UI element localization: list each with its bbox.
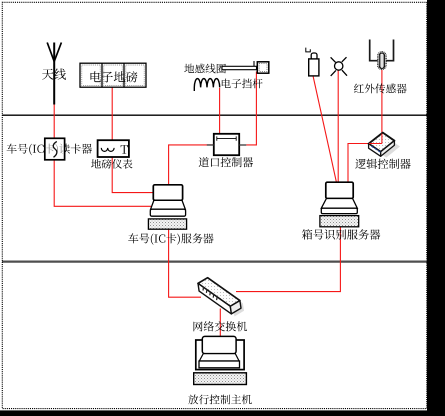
- logic controller top face: [369, 133, 395, 152]
- ground induction coil: [194, 79, 219, 91]
- card reader box: [45, 138, 65, 160]
- vehicle-ID server monitor: [153, 185, 182, 201]
- camera body: [309, 59, 319, 76]
- lamp circle: [335, 62, 343, 70]
- release host screen: [202, 336, 236, 353]
- vehicle-ID server keyboard: [148, 219, 186, 229]
- wire gate controller to vehicle-ID server top: [169, 145, 214, 186]
- container-ID server monitor: [326, 182, 353, 198]
- vehicle-ID server base bar: [150, 209, 185, 216]
- barrier drive box: [257, 62, 269, 73]
- weighbridge cell inner dotted borders: [82, 65, 144, 85]
- wire vehicle-ID server to network switch: [169, 229, 201, 297]
- label 逻辑控制器: [355, 159, 410, 169]
- wire network switch to release control host: [219, 309, 221, 339]
- network switch shadow: [201, 280, 244, 316]
- meter T symbol: [121, 145, 128, 154]
- label 网络交换机: [194, 321, 248, 331]
- electronic barrier rod: [222, 66, 257, 69]
- network switch front face: [198, 283, 231, 314]
- label 地感线圈: [184, 64, 226, 74]
- frame: bottom black band: [0, 410, 445, 416]
- infrared sensor capsule hatch: [381, 54, 383, 68]
- wire lamp to container-ID server: [337, 71, 339, 183]
- wire overlay on logic controller: [369, 134, 382, 144]
- wire antenna - card reader - vehicle-ID server: [54, 104, 151, 206]
- wire logic controller to container-ID server: [348, 144, 382, 184]
- wire camera to container-ID server: [313, 76, 337, 183]
- wire container-ID server to network switch: [236, 227, 340, 292]
- wire barrier to gate controller right stub: [246, 72, 256, 145]
- faint glyphs inside reader box: [44, 144, 69, 156]
- label 电子挡杆: [222, 79, 263, 89]
- label 红外传感器: [354, 84, 407, 94]
- label 天线: [42, 68, 66, 79]
- label 箱号识别服务器: [302, 229, 380, 240]
- label 道口控制器: [199, 157, 253, 167]
- network switch end face: [230, 301, 241, 314]
- wire induction coil to gate controller: [219, 88, 221, 134]
- lamp rays: [331, 57, 347, 76]
- release host keyboard: [194, 373, 247, 385]
- antenna fork: [47, 43, 61, 62]
- vehicle-ID server flare: [151, 200, 186, 209]
- label 放行控制主机: [188, 395, 252, 405]
- gate controller side stubs: [207, 144, 247, 146]
- wire meter to vehicle-ID server monitor: [112, 157, 154, 193]
- release host base: [199, 361, 240, 368]
- label 车号(IC卡)读卡器: [7, 144, 92, 156]
- antenna mast: [53, 43, 55, 105]
- wire infrared sensor to logic controller: [381, 70, 383, 144]
- label 电子地磅: [91, 71, 138, 82]
- camera bracket mark: [306, 48, 311, 52]
- label 地磅仪表: [91, 159, 132, 169]
- wire weighbridge to meter: [111, 87, 113, 140]
- network switch top face: [198, 278, 240, 307]
- electronic weighbridge box (3 cells): [80, 63, 146, 87]
- logic controller shadow: [374, 138, 400, 157]
- divider line 1 (field level / control level): [2, 114, 427, 116]
- card reader squiggle icon: [53, 142, 57, 158]
- infrared sensor bracket: [370, 40, 394, 61]
- infrared sensor capsule inner: [379, 53, 384, 68]
- camera knob: [311, 53, 317, 60]
- meter omega symbol: [101, 148, 114, 152]
- logic controller right face: [381, 141, 395, 157]
- gate controller gauge line: [217, 136, 236, 140]
- release host flare: [199, 354, 239, 361]
- gate controller box 道口控制器: [214, 134, 239, 155]
- network switch port ticks: [203, 287, 217, 301]
- infrared sensor capsule outer: [378, 52, 386, 70]
- container-ID server base bar: [321, 208, 357, 213]
- label 车号(IC卡)服务器: [128, 233, 213, 245]
- weighbridge meter box 地磅仪表: [98, 140, 129, 157]
- release host outer housing: [196, 340, 244, 370]
- frame: right black band: [427, 0, 445, 416]
- barrier hinge tick: [253, 61, 255, 66]
- container-ID server keyboard: [320, 216, 359, 227]
- container-ID server flare: [321, 199, 357, 209]
- logic controller port marks: [371, 146, 380, 152]
- divider line 2 (control level / network level): [2, 261, 427, 263]
- logic controller front face: [369, 144, 381, 157]
